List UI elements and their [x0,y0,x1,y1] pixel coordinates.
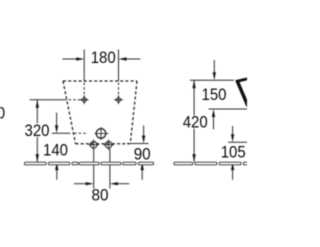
dimension 420 line lower segment [193,129,195,163]
wall strip side view [174,162,248,165]
fixing bolt circle right [103,140,114,151]
bidet plan outline rear edge (dashed) [76,143,131,145]
dimension 420 arrow down [192,154,195,162]
dimension 140 arrow up below wall [56,170,58,180]
dimension 105 arrow up below wall [232,170,234,180]
dimension 320 arrow up [36,100,39,108]
bidet plan outline top edge (dashed) [63,80,137,82]
svg-text:180: 180 [91,48,116,67]
svg-text:140: 140 [43,140,68,159]
dimension 320 extension line [30,99,64,101]
dimension 180 extension line right [118,50,120,82]
dimension 80 arrow left [86,182,94,185]
dimension 420 arrow up [192,80,195,88]
dimension 90 extension line [127,143,149,145]
svg-text:320: 320 [25,121,50,140]
dimension 80 extension line right [109,149,111,189]
dimension 150 arrow up [213,117,215,130]
dimension 105 extension line [228,141,247,143]
dimension 80 arrow right [110,182,118,185]
bidet plan outline left edge (dashed) [63,81,76,144]
svg-text:0: 0 [0,104,5,123]
dimension 180 arrow right [119,57,127,60]
dimension 320 line lower segment [36,137,38,162]
dimension 80 line left tail [74,183,86,185]
dimension 180 arrow left [76,57,84,60]
svg-text:90: 90 [134,145,151,164]
dimension 80 line right tail [118,183,129,185]
svg-text:420: 420 [183,113,208,132]
dimension 320 line upper segment [36,100,38,124]
dimension 180 line left tail [63,58,77,60]
dimension 105 arrow down [232,126,234,134]
dimension 140 extension line to inlet center [52,132,71,134]
dimension 180 line right tail [126,58,140,60]
svg-text:80: 80 [92,185,109,204]
side view rim line [209,108,247,110]
dimension 90 arrow down [143,126,145,136]
water inlet crosshair circle [95,127,109,140]
fixing hole marker right [114,95,123,104]
bidet plan outline right edge (dashed) [130,81,137,144]
dimension 180 extension line left [83,50,85,82]
dimension 80 extension line left [93,149,95,189]
dimension 140 arrow down [56,113,58,126]
dimension 90 arrow up below wall [141,170,143,180]
dimension 320 arrow down [36,154,39,162]
svg-text:105: 105 [221,142,246,161]
wall strip left view [25,162,154,165]
dimension 150 arrow down [213,60,215,73]
side view bowl triangle [236,79,248,82]
svg-text:150: 150 [202,85,227,104]
fixing bolt circle left [88,140,99,151]
fixing hole marker left [80,95,89,104]
dimension 420 line upper segment [193,80,195,115]
side view top line [190,79,234,81]
